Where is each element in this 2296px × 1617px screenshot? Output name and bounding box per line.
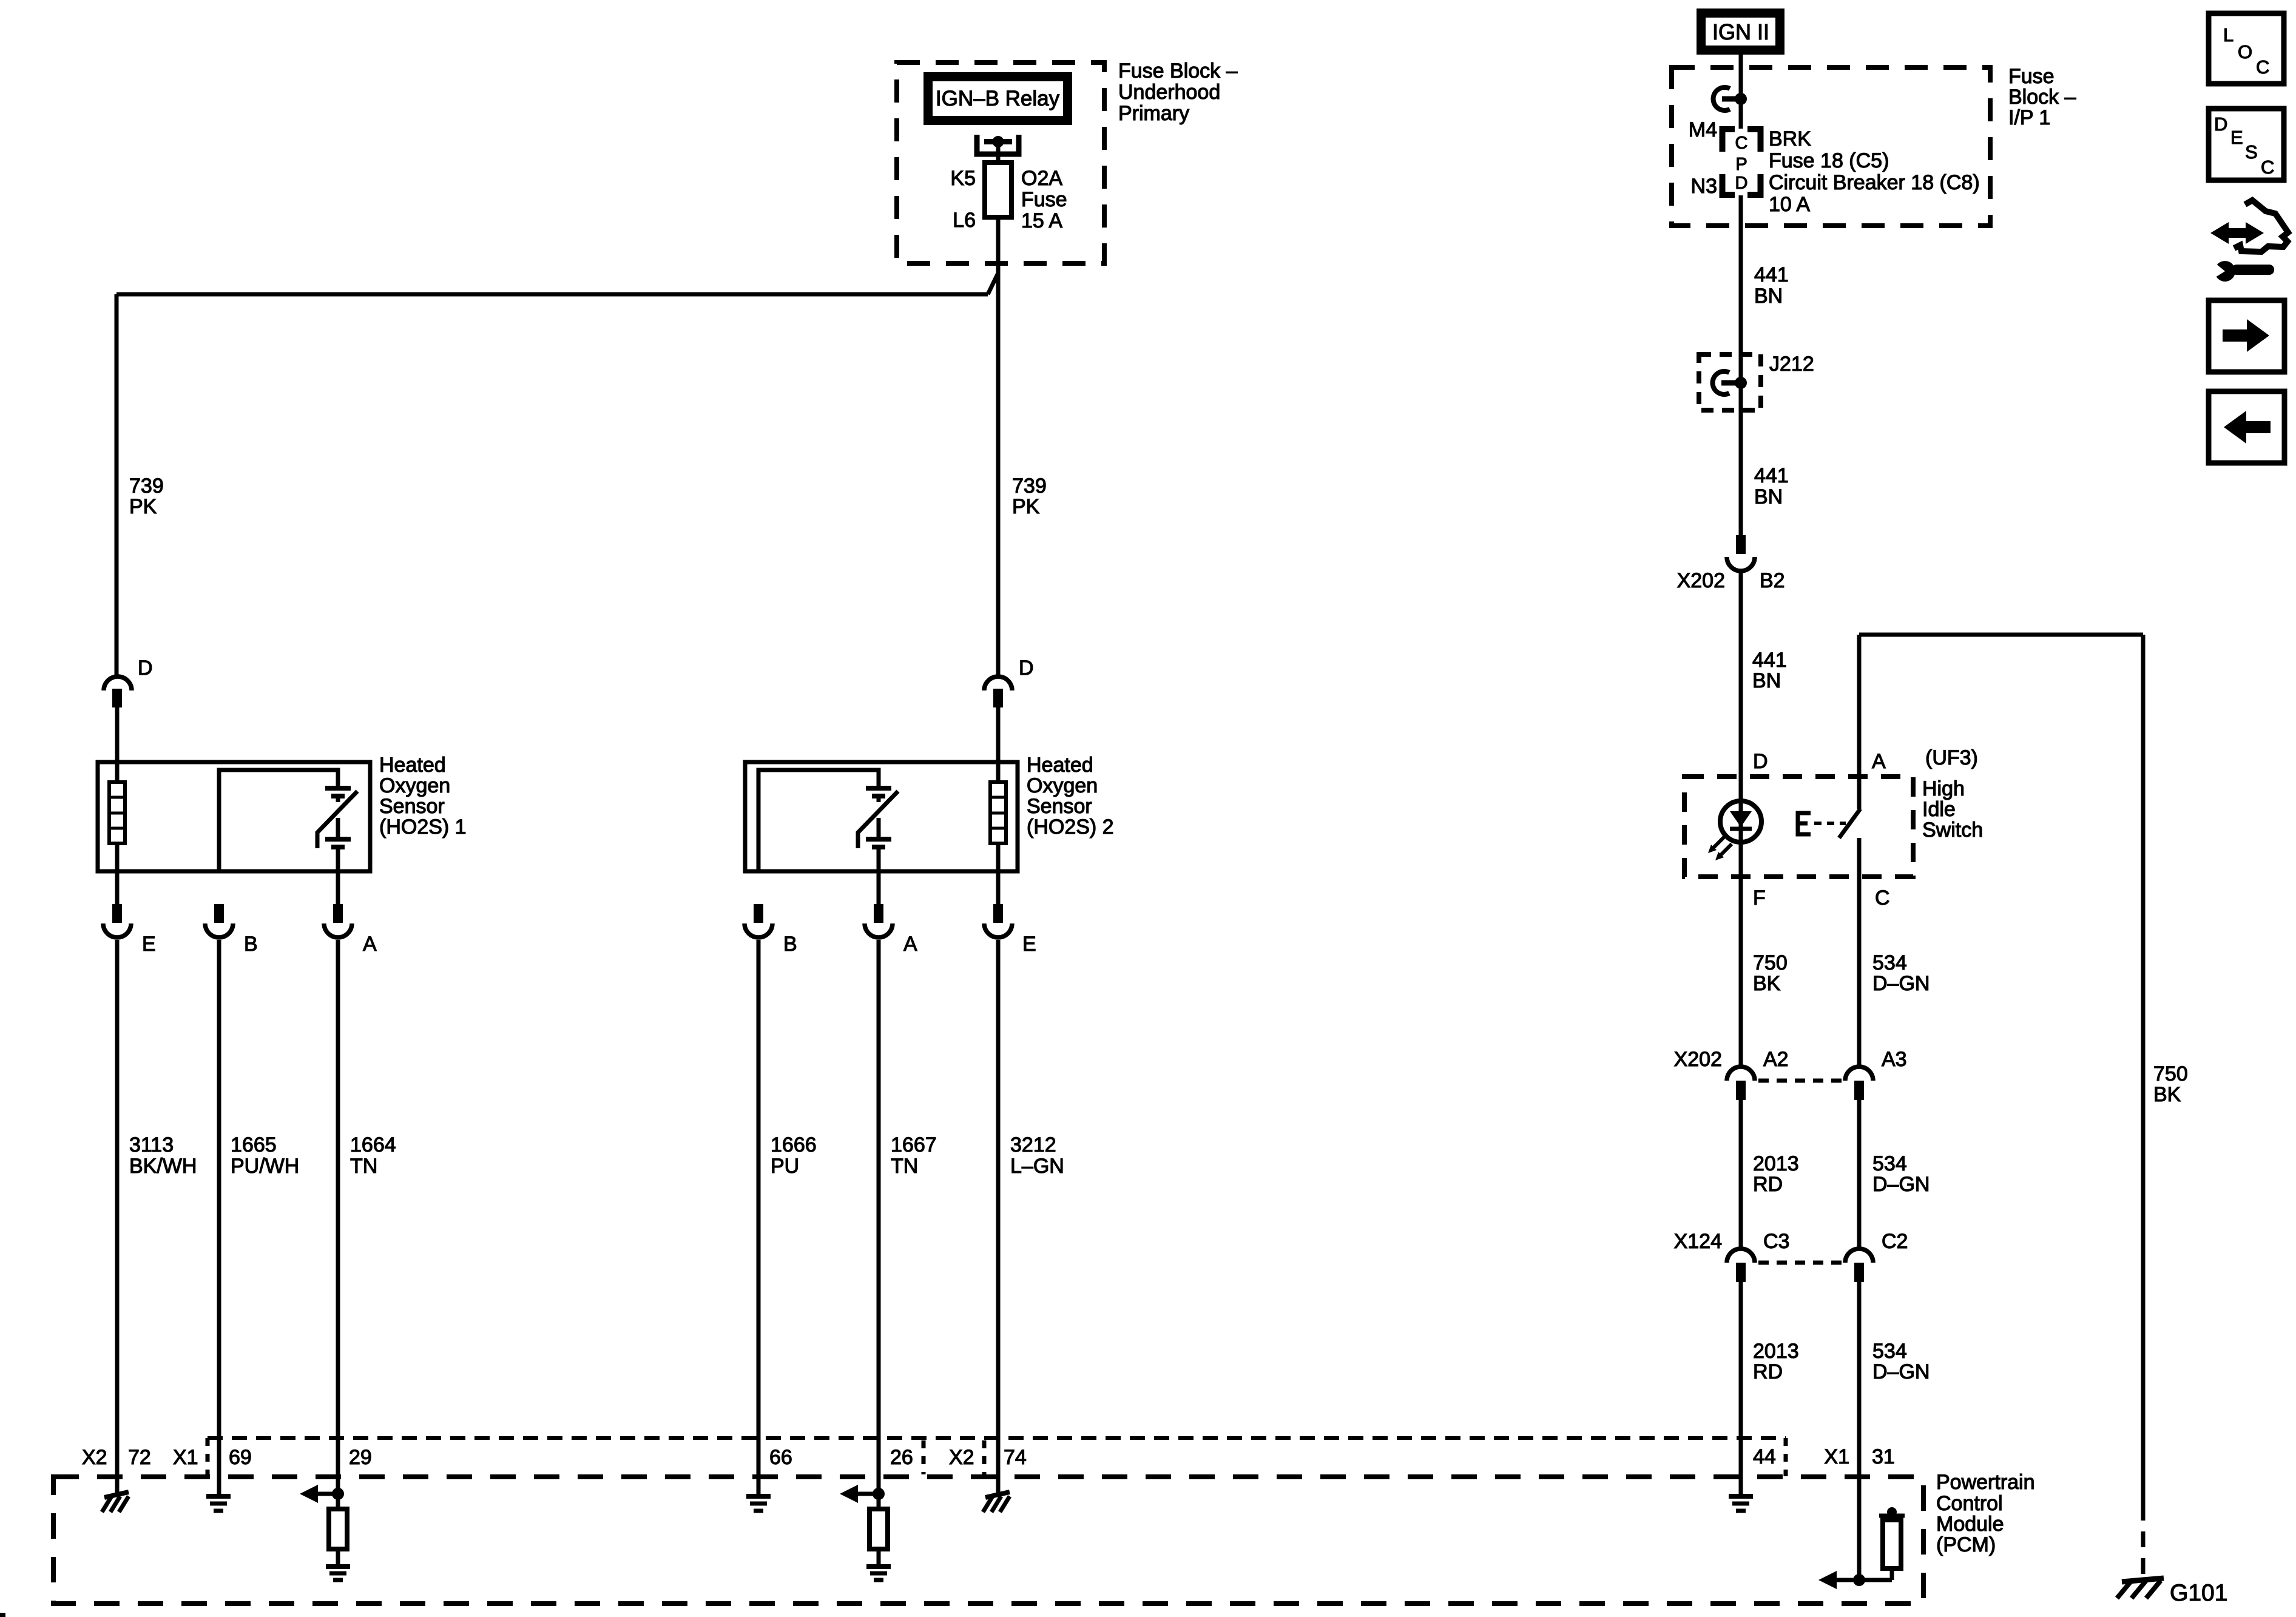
svg-text:2013: 2013 [1753, 1340, 1799, 1363]
label 1664 TN [350, 1133, 396, 1178]
wire B2 to high idle switch D [1739, 571, 1743, 877]
svg-text:B: B [244, 933, 258, 956]
wire A3 to C2 [1857, 1100, 1862, 1249]
svg-text:31: 31 [1872, 1445, 1895, 1468]
wire IGN II to breaker [1739, 55, 1743, 129]
svg-text:74: 74 [1004, 1446, 1027, 1469]
svg-text:O: O [2238, 41, 2252, 62]
wire C to A3 [1857, 877, 1862, 1067]
svg-text:441: 441 [1752, 649, 1787, 672]
connector boundary stub x2 right [982, 1440, 987, 1474]
label Fuse Block - I/P 1 [2008, 65, 2076, 129]
svg-text:P: P [1735, 155, 1747, 174]
power feed box IGN II [1697, 8, 1784, 55]
svg-text:Module: Module [1936, 1513, 2004, 1536]
breaker letters C P D [1735, 133, 1748, 193]
label 1666 PU [771, 1133, 817, 1178]
svg-text:IGN–B Relay: IGN–B Relay [936, 87, 1060, 110]
svg-text:26: 26 [890, 1446, 913, 1469]
connector B HO2S1 cup [205, 923, 233, 937]
svg-text:L6: L6 [953, 209, 976, 232]
connector A3 pin [1854, 1081, 1864, 1100]
label 739 PK right [1012, 474, 1047, 518]
connector A HO2S2 cup [865, 923, 893, 937]
svg-text:A: A [1872, 750, 1886, 773]
connector A HO2S2 pin [874, 904, 883, 923]
wire breaker output down to J212 [1739, 195, 1743, 357]
svg-text:BK: BK [1753, 972, 1781, 995]
svg-text:O2A: O2A [1021, 167, 1062, 190]
svg-text:RD: RD [1753, 1360, 1783, 1383]
svg-text:D: D [2214, 113, 2227, 135]
svg-text:G101: G101 [2170, 1580, 2227, 1606]
connector boundary stub right [1784, 1438, 1788, 1476]
icon wrench tool [2212, 260, 2274, 282]
wire J212 to X202 B2 [1739, 354, 1743, 535]
svg-text:N3: N3 [1691, 175, 1717, 198]
label 441 BN second [1754, 464, 1789, 508]
connector X202 B2 pin [1736, 535, 1746, 554]
ground earth pin 66 [746, 1496, 771, 1511]
sensor cell HO2S1 [325, 788, 351, 847]
connector A3 arc [1845, 1067, 1873, 1081]
svg-text:Sensor: Sensor [379, 795, 445, 818]
wire 1664 TN [336, 940, 340, 1494]
svg-text:E: E [1022, 933, 1036, 956]
connector A2 arc [1727, 1067, 1755, 1081]
svg-text:C: C [2256, 56, 2269, 78]
svg-text:Control: Control [1936, 1492, 2003, 1515]
svg-text:C2: C2 [1882, 1230, 1908, 1253]
svg-text:D–GN: D–GN [1872, 1360, 1930, 1383]
svg-text:C3: C3 [1763, 1230, 1789, 1253]
svg-text:Heated: Heated [379, 754, 446, 777]
connector boundary stub x2 left [922, 1440, 926, 1474]
indicator LED circle [1720, 801, 1761, 842]
svg-text:C: C [2261, 157, 2274, 178]
svg-text:(UF3): (UF3) [1925, 746, 1978, 769]
variable slash HO2S2 [858, 791, 898, 848]
connector C3 arc [1727, 1249, 1755, 1263]
svg-text:PK: PK [129, 495, 157, 518]
svg-text:D: D [138, 657, 153, 680]
svg-text:B2: B2 [1760, 569, 1785, 592]
svg-text:A: A [363, 933, 377, 956]
ground earth pin 44 [1729, 1496, 1753, 1511]
label 441 BN first [1754, 263, 1789, 308]
svg-text:750: 750 [2153, 1062, 2188, 1085]
svg-text:(PCM): (PCM) [1936, 1533, 1996, 1556]
svg-text:High: High [1922, 777, 1965, 800]
switch blade [1839, 809, 1860, 838]
wire 1666 PU [757, 940, 761, 1494]
LED cathode bar [1730, 827, 1752, 831]
icon DESC box [2209, 109, 2284, 180]
heater element HO2S1 [109, 782, 125, 843]
ground chassis pin 74 [983, 1492, 1010, 1512]
svg-text:F: F [1753, 886, 1766, 910]
svg-text:E: E [142, 933, 156, 956]
svg-text:X1: X1 [173, 1446, 198, 1469]
label 534 D-GN first [1872, 951, 1930, 995]
svg-text:534: 534 [1872, 1340, 1907, 1363]
svg-text:I/P 1: I/P 1 [2008, 106, 2050, 129]
node 26 arrow [840, 1485, 885, 1503]
connector E HO2S1 pin [112, 904, 122, 923]
high idle switch dashed box [1684, 777, 1913, 877]
svg-text:1665: 1665 [231, 1133, 277, 1156]
svg-text:3113: 3113 [129, 1133, 174, 1156]
svg-text:2013: 2013 [1753, 1152, 1799, 1175]
ground earth pin 26 [866, 1567, 891, 1580]
svg-text:1667: 1667 [891, 1133, 937, 1156]
label Heated Oxygen Sensor (HO2S) 1 [379, 754, 467, 839]
connector D HO2S2 pin [993, 689, 1003, 707]
svg-text:TN: TN [891, 1155, 918, 1178]
junction J212 dashed box [1699, 354, 1761, 410]
connector link A2-A3 [1758, 1079, 1842, 1083]
svg-text:PU/WH: PU/WH [231, 1155, 299, 1178]
connector A HO2S1 cup [324, 923, 352, 937]
label Powertrain Control Module (PCM) [1936, 1471, 2035, 1556]
label 3212 L-GN [1010, 1133, 1064, 1178]
fuse O2A 15A [985, 163, 1011, 217]
wire heater to pin E HO2S1 [115, 843, 120, 904]
svg-text:X202: X202 [1674, 1048, 1722, 1071]
svg-text:Switch: Switch [1922, 819, 1983, 842]
wire 739 PK horizontal bus [116, 292, 988, 297]
icon glove outline [2234, 200, 2288, 252]
label 2013 RD second [1753, 1340, 1799, 1383]
pcm dashed box [53, 1477, 1923, 1604]
svg-text:Fuse 18 (C5): Fuse 18 (C5) [1769, 149, 1889, 172]
svg-text:PU: PU [771, 1155, 799, 1178]
svg-text:Fuse: Fuse [2008, 65, 2055, 88]
svg-text:A: A [903, 933, 917, 956]
icon left arrow box [2209, 391, 2284, 463]
wire 739 PK left drop [115, 294, 119, 677]
connector D HO2S1 pin [112, 689, 122, 707]
svg-text:Fuse: Fuse [1021, 188, 1067, 211]
wire switch lower [1857, 838, 1862, 877]
svg-text:Idle: Idle [1922, 798, 1956, 821]
svg-text:PK: PK [1012, 495, 1040, 518]
circuit breaker bracket M4/N3 [1723, 129, 1761, 195]
label 750 BK right [2153, 1062, 2188, 1106]
connector B HO2S2 cup [745, 923, 772, 937]
label Fuse Block - Underhood Primary [1118, 59, 1238, 125]
wire relay output [996, 138, 1001, 163]
connector boundary stub left [206, 1438, 210, 1476]
connector C2 arc [1845, 1249, 1873, 1263]
artifact mark bottom left [0, 1613, 5, 1617]
svg-text:L–GN: L–GN [1010, 1155, 1064, 1178]
svg-text:69: 69 [229, 1446, 252, 1469]
svg-text:TN: TN [350, 1155, 377, 1178]
fuse block I/P 1 dashed box [1672, 67, 1990, 226]
icon right arrow box [2209, 300, 2284, 372]
sensor box HO2S1 [98, 762, 370, 871]
svg-text:66: 66 [769, 1446, 792, 1469]
label 441 BN third [1752, 649, 1787, 692]
wire F to A2 [1739, 877, 1743, 1067]
svg-text:Oxygen: Oxygen [1027, 774, 1098, 797]
wire 739 PK right drop [996, 273, 1001, 677]
svg-text:D–GN: D–GN [1872, 1173, 1930, 1196]
wire C3 to PCM 44 [1739, 1282, 1743, 1494]
wire D to HO2S1 heater [115, 707, 120, 782]
svg-text:B: B [783, 933, 797, 956]
label 534 D-GN second [1872, 1152, 1930, 1196]
svg-text:X1: X1 [1824, 1445, 1849, 1468]
label 2013 RD first [1753, 1152, 1799, 1196]
relay terminal staple [977, 135, 1019, 154]
ground G101 chassis [2117, 1578, 2164, 1598]
svg-text:K5: K5 [950, 167, 976, 190]
svg-text:BN: BN [1752, 669, 1781, 692]
label BRK Fuse 18 (C5) Circuit Breaker 18 (C8) 10 A [1769, 127, 1980, 216]
fuse block underhood primary dashed box [897, 62, 1104, 263]
svg-text:A3: A3 [1882, 1048, 1907, 1071]
wire A2 to C3 [1739, 1100, 1743, 1249]
svg-text:D: D [1753, 750, 1768, 773]
wire sense inner HO2S1 [219, 770, 338, 871]
svg-text:739: 739 [1012, 474, 1047, 498]
svg-text:(HO2S) 2: (HO2S) 2 [1027, 815, 1114, 839]
connector E HO2S1 cup [103, 923, 131, 937]
svg-text:C: C [1735, 133, 1748, 153]
connector link C3-C2 [1758, 1261, 1842, 1265]
svg-text:441: 441 [1754, 464, 1789, 487]
svg-text:D: D [1019, 657, 1034, 680]
svg-text:1666: 1666 [771, 1133, 817, 1156]
svg-text:750: 750 [1753, 951, 1788, 974]
ground chassis pin 72 [102, 1492, 129, 1512]
svg-text:BN: BN [1754, 285, 1783, 308]
svg-text:Oxygen: Oxygen [379, 774, 450, 797]
svg-text:Circuit Breaker 18 (C8): Circuit Breaker 18 (C8) [1769, 171, 1980, 194]
sensor box HO2S2 [745, 762, 1018, 871]
LED triangle [1730, 811, 1752, 827]
label High Idle Switch [1922, 777, 1983, 842]
connector B HO2S2 pin [754, 904, 763, 923]
relay IGN-B Relay [923, 72, 1072, 125]
svg-text:BRK: BRK [1769, 127, 1811, 150]
svg-text:29: 29 [349, 1446, 372, 1469]
variable slash HO2S1 [317, 791, 357, 848]
svg-text:C: C [1875, 886, 1890, 910]
svg-text:3212: 3212 [1010, 1133, 1056, 1156]
label 534 D-GN third [1872, 1340, 1930, 1383]
svg-text:1664: 1664 [350, 1133, 396, 1156]
svg-text:739: 739 [129, 474, 164, 498]
label 3113 BK/WH [129, 1133, 197, 1178]
svg-text:Heated: Heated [1027, 754, 1093, 777]
svg-text:E: E [2230, 127, 2243, 148]
svg-text:A2: A2 [1763, 1048, 1789, 1071]
wire D to HO2S2 heater [996, 707, 1001, 782]
resistor pin 26 [869, 1494, 888, 1565]
wire sense inner HO2S2 [758, 770, 879, 871]
breaker terminal hook [1714, 87, 1747, 110]
label 739 PK left [129, 474, 164, 518]
svg-text:534: 534 [1872, 951, 1907, 974]
wire cell to pin A HO2S1 [336, 847, 340, 904]
node 31 arrow [1818, 1571, 1892, 1589]
connector E HO2S2 cup [984, 923, 1012, 937]
svg-text:S: S [2245, 141, 2258, 163]
wire A into switch [1857, 635, 1862, 809]
LED light arrows [1708, 837, 1732, 860]
svg-text:X2: X2 [82, 1446, 107, 1469]
svg-text:BK: BK [2153, 1083, 2181, 1106]
wire C2 to PCM 31 [1857, 1282, 1862, 1580]
svg-text:Primary: Primary [1118, 102, 1189, 125]
resistor pin 29 [329, 1494, 347, 1565]
svg-text:RD: RD [1753, 1173, 1783, 1196]
svg-text:X2: X2 [949, 1446, 974, 1469]
svg-text:44: 44 [1753, 1445, 1776, 1468]
wire 1667 TN [877, 940, 881, 1494]
svg-text:J212: J212 [1769, 353, 1814, 376]
svg-text:72: 72 [128, 1446, 151, 1469]
svg-text:BK/WH: BK/WH [129, 1155, 197, 1178]
wire 1665 PU/WH [217, 940, 221, 1494]
wire 3113 BK/WH [115, 940, 120, 1493]
junction J212 hook [1713, 371, 1747, 394]
wire cell to pin A HO2S2 [877, 847, 881, 904]
node 29 arrow [300, 1485, 344, 1503]
icon LOC box [2209, 13, 2284, 84]
label Heated Oxygen Sensor (HO2S) 2 [1027, 754, 1114, 839]
wire jog to 739 PK bus [988, 273, 998, 294]
label 750 BK mid [1753, 951, 1788, 995]
svg-text:X124: X124 [1674, 1230, 1722, 1253]
connector D HO2S1 arc [104, 677, 132, 690]
svg-text:441: 441 [1754, 263, 1789, 286]
wire G101 dashed [2141, 1505, 2146, 1578]
svg-text:534: 534 [1872, 1152, 1907, 1175]
connector E HO2S2 pin [993, 904, 1003, 923]
connector A2 pin [1736, 1081, 1746, 1100]
wire 750 BK loop top [1859, 633, 2143, 637]
svg-text:Block –: Block – [2008, 86, 2076, 109]
svg-text:BN: BN [1754, 485, 1783, 508]
icon wrench double arrow [2210, 222, 2264, 244]
wire 3212 L-GN [996, 940, 1001, 1493]
svg-text:Powertrain: Powertrain [1936, 1471, 2035, 1494]
wire 750 BK loop right [2141, 635, 2146, 1505]
connector boundary dotted line X1 [208, 1436, 1786, 1440]
connector C3 pin [1736, 1263, 1746, 1282]
wire fuse output down [996, 217, 1001, 273]
wire heater to pin E HO2S2 [996, 843, 1001, 904]
resistor pin 31 [1879, 1507, 1905, 1580]
label O2A Fuse 15 A [1021, 167, 1067, 232]
connector B HO2S1 pin [214, 904, 224, 923]
svg-text:IGN II: IGN II [1712, 19, 1769, 44]
connector C2 pin [1854, 1263, 1864, 1282]
connector D HO2S2 arc [984, 677, 1012, 690]
label 1665 PU/WH [231, 1133, 299, 1178]
svg-text:Fuse Block –: Fuse Block – [1118, 59, 1238, 83]
svg-text:X202: X202 [1677, 569, 1725, 592]
svg-text:(HO2S) 1: (HO2S) 1 [379, 815, 467, 839]
svg-text:Underhood: Underhood [1118, 81, 1220, 104]
svg-text:D: D [1735, 174, 1748, 193]
ground earth pin 29 [326, 1567, 350, 1580]
svg-text:15 A: 15 A [1021, 209, 1062, 232]
sensor cell HO2S2 [866, 788, 891, 847]
ground earth pin 69 [206, 1496, 231, 1511]
svg-text:M4: M4 [1689, 118, 1717, 141]
label 1667 TN [891, 1133, 937, 1178]
svg-text:Sensor: Sensor [1027, 795, 1092, 818]
connector X202 B2 cup [1727, 557, 1755, 571]
connector A HO2S1 pin [333, 904, 343, 923]
svg-text:10 A: 10 A [1769, 193, 1810, 216]
actuator link dashes [1814, 822, 1846, 825]
svg-text:L: L [2223, 24, 2234, 46]
actuator E symbol [1798, 813, 1811, 834]
svg-text:D–GN: D–GN [1872, 972, 1930, 995]
heater element HO2S2 [990, 782, 1006, 843]
